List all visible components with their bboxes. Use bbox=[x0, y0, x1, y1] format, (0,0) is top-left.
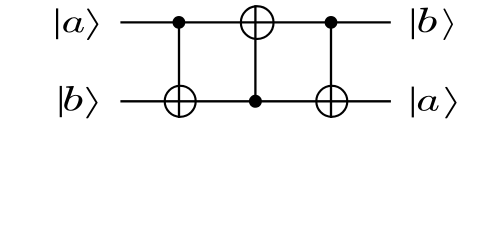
CNOT3 target circle on bottom wire bbox=[316, 86, 347, 117]
CNOT2 control dot on bottom wire bbox=[249, 95, 262, 108]
qubit label |a> right bottom bbox=[413, 87, 457, 119]
qubit label |a> left top bbox=[57, 8, 98, 40]
wire CNOT3 vertical bbox=[330, 22, 332, 118]
wire CNOT2 vertical bbox=[254, 5, 256, 101]
CNOT1 control dot on top wire bbox=[173, 16, 186, 29]
CNOT1 target circle on bottom wire bbox=[165, 86, 196, 117]
wire CNOT1 vertical bbox=[178, 22, 180, 118]
qubit label |b> left bottom bbox=[61, 86, 98, 118]
CNOT3 control dot on top wire bbox=[325, 16, 338, 29]
qubit label |b> right top bbox=[413, 8, 453, 40]
wire bottom bbox=[120, 100, 391, 102]
wire top bbox=[120, 21, 390, 23]
CNOT2 target circle on top wire bbox=[241, 6, 274, 39]
